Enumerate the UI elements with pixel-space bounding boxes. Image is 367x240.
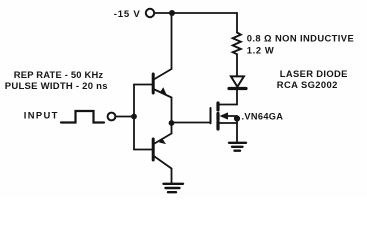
svg-text:REP RATE - 50 KHz: REP RATE - 50 KHz: [14, 69, 104, 80]
svg-text:RCA SG2002: RCA SG2002: [277, 79, 338, 90]
svg-text:-15 V: -15 V: [114, 9, 141, 20]
svg-text:INPUT: INPUT: [24, 109, 59, 120]
svg-text:PULSE WIDTH - 20 ns: PULSE WIDTH - 20 ns: [5, 81, 108, 92]
svg-text:.VN64GA: .VN64GA: [242, 112, 284, 122]
svg-text:1.2 W: 1.2 W: [247, 45, 274, 56]
svg-text:0.8 Ω NON INDUCTIVE: 0.8 Ω NON INDUCTIVE: [247, 33, 354, 44]
svg-text:LASER DIODE: LASER DIODE: [280, 68, 348, 79]
